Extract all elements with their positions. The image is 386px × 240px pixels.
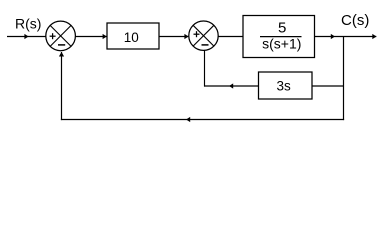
wire G2 to output C(s) — [315, 34, 377, 39]
block G1 value 10 — [107, 23, 159, 49]
svg-text:10: 10 — [124, 30, 139, 45]
svg-text:C(s): C(s) — [341, 12, 369, 29]
node takeoff point T1 wire down from output — [343, 37, 345, 121]
wire outer feedback bottom with left arrow — [61, 117, 344, 122]
wire up into S2 bottom — [204, 50, 206, 87]
node R(s) input label — [15, 16, 41, 32]
wire S1 to block G1 — [75, 34, 106, 39]
wire S2 to block G2 — [218, 36, 243, 38]
wire takeoff to block H1 right side — [312, 85, 344, 87]
block G2 value 5/s(s+1) — [243, 16, 315, 58]
wire H1 to S2 bottom with left arrow — [204, 83, 259, 88]
svg-text:3s: 3s — [276, 79, 291, 94]
summing junction S2 — [189, 21, 218, 50]
S1 plus sign — [50, 33, 56, 39]
wire input R(s) to summing junction S1 — [7, 34, 46, 39]
svg-text:s(s+1): s(s+1) — [262, 36, 301, 52]
node C(s) output label — [341, 12, 369, 29]
block H1 value 3s — [259, 72, 313, 99]
wire G1 to summing junction S2 — [159, 34, 189, 39]
summing junction S1 — [46, 21, 76, 51]
svg-text:R(s): R(s) — [15, 16, 41, 32]
S2 minus sign — [202, 44, 209, 46]
svg-text:5: 5 — [278, 20, 286, 37]
S1 minus sign — [58, 44, 65, 46]
S2 plus sign — [194, 31, 200, 37]
wire outer feedback up into S1 bottom — [59, 52, 64, 120]
